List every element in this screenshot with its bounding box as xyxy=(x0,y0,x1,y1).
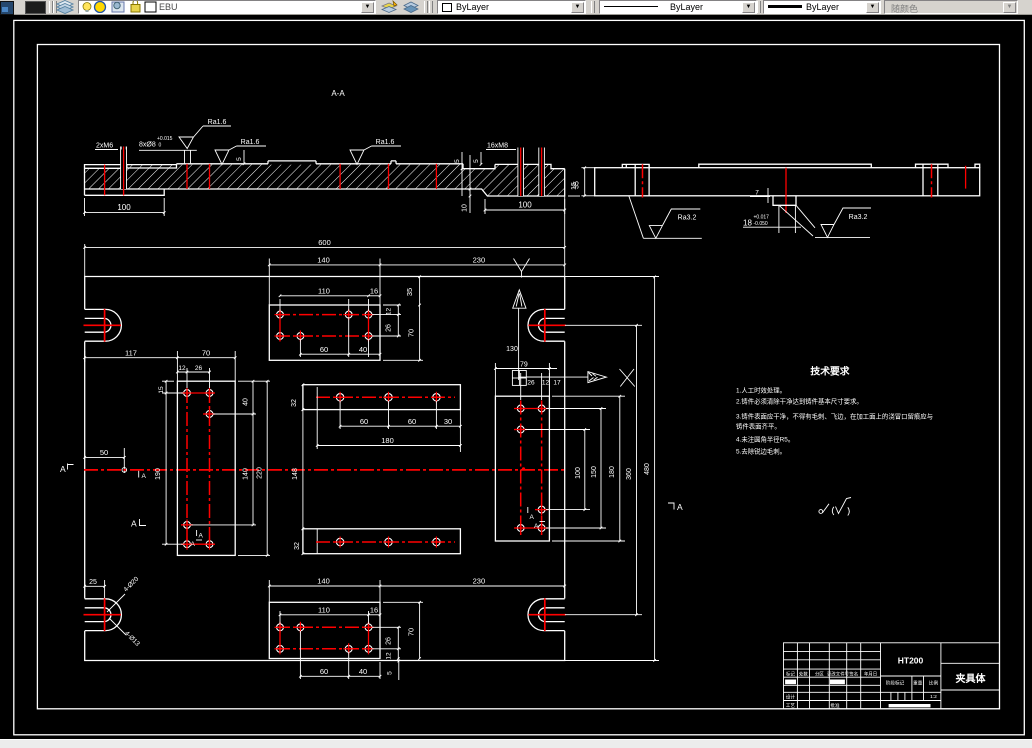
dimension 60 (upper strip holes right) xyxy=(389,401,438,429)
svg-text:32: 32 xyxy=(291,399,298,407)
svg-text:26: 26 xyxy=(195,365,203,372)
svg-text:4-Ø20: 4-Ø20 xyxy=(122,575,140,593)
svg-text:16: 16 xyxy=(370,606,378,615)
bottom pocket hole 2 xyxy=(295,622,306,633)
svg-text:50: 50 xyxy=(100,448,108,457)
right pocket hole 3 xyxy=(515,424,526,435)
svg-text:100: 100 xyxy=(518,201,532,210)
svg-text:批准: 批准 xyxy=(830,702,840,709)
bottom pocket hole 4 xyxy=(275,643,286,654)
title block frame and revision grid xyxy=(784,643,1000,709)
upper strip hole 2 xyxy=(383,392,394,403)
svg-text:70: 70 xyxy=(407,628,416,636)
dimension 110 (bottom pocket) xyxy=(279,606,370,625)
lower strip hole 2 xyxy=(383,537,394,548)
dimension 60 (upper strip holes left) xyxy=(339,401,390,429)
section A-A hole centerline 4 xyxy=(209,164,211,189)
dimension 70 (bottom pocket height) xyxy=(383,601,423,660)
svg-text:A: A xyxy=(534,523,539,530)
svg-text:26: 26 xyxy=(527,380,535,387)
svg-text:A: A xyxy=(60,464,66,474)
side view centerline 2 (red, boss) xyxy=(785,168,787,213)
dimension 10 (right foot step) xyxy=(462,155,472,213)
label 4-Φ20 with leader xyxy=(107,575,140,612)
dimension 35 (side view height) xyxy=(574,166,596,197)
svg-text:79: 79 xyxy=(520,361,528,368)
dimension 5 (left of 16xM8) xyxy=(454,152,463,196)
svg-text:220: 220 xyxy=(257,467,264,479)
svg-text:1:2: 1:2 xyxy=(930,694,937,700)
section mark A (left pocket bottom 2) xyxy=(191,540,203,548)
dimension 26 12 17 (right pocket columns) xyxy=(521,373,561,400)
layer combo xyxy=(78,0,376,14)
svg-text:工艺: 工艺 xyxy=(786,703,796,708)
svg-text:40: 40 xyxy=(359,345,367,354)
section A-A hole centerline 2 xyxy=(123,147,125,196)
svg-text:夹具体: 夹具体 xyxy=(956,672,987,685)
top pocket hole 5 xyxy=(295,331,306,342)
svg-text:5: 5 xyxy=(473,159,480,163)
dimension 180 (upper strip) xyxy=(316,387,462,449)
dimension 360 (U-slots) xyxy=(565,324,642,616)
left pocket hole 1 xyxy=(182,388,193,399)
lineweight combo xyxy=(763,0,881,14)
svg-text:0: 0 xyxy=(159,143,162,149)
right pocket hole 1 xyxy=(515,403,526,414)
svg-text:26: 26 xyxy=(386,637,393,645)
top pocket hole pattern centerlines (red) xyxy=(276,310,372,341)
dimension 79 (right pocket top) xyxy=(494,361,557,396)
dimension 5 (bottom pocket to edge) xyxy=(387,659,401,681)
section mark A (right) xyxy=(668,502,683,512)
svg-text:150: 150 xyxy=(591,466,598,478)
dimension 50 (locating point) xyxy=(83,448,126,473)
svg-text:40: 40 xyxy=(243,398,250,406)
dimension 15 (section right edge) xyxy=(568,182,580,196)
svg-text:10: 10 xyxy=(462,204,469,212)
top pocket hole 6 xyxy=(363,331,374,342)
svg-text:60: 60 xyxy=(408,417,416,426)
lower middle strip centerline (red) xyxy=(316,541,455,543)
bottom pocket hole pattern centerlines (red) xyxy=(276,622,372,653)
side view centerline 1 (red) xyxy=(642,164,644,197)
right pocket outline xyxy=(495,396,549,541)
svg-text:30: 30 xyxy=(444,417,452,426)
svg-text:7: 7 xyxy=(755,190,759,197)
dimension 70 (left pocket width) xyxy=(177,348,236,381)
dimension 26 (left pocket) xyxy=(195,365,211,373)
svg-text:8xØ8: 8xØ8 xyxy=(139,141,156,148)
roughness symbol Ra1.6 #3 xyxy=(350,139,401,165)
plot style combo (disabled) xyxy=(884,0,1018,14)
application toolbar xyxy=(0,0,1032,15)
left pocket hole 5 xyxy=(182,539,193,550)
svg-text:12: 12 xyxy=(178,365,186,372)
technical requirements line 2 xyxy=(736,397,863,406)
dimension 130 (arrow) xyxy=(506,290,526,380)
U-slot top-right with centerlines xyxy=(528,309,566,342)
section mark A (right pocket bottom 2) xyxy=(534,522,545,531)
section mark A (near point) xyxy=(139,471,147,480)
dimension 35 (top pocket offset) xyxy=(405,275,421,306)
dimension 600 (plan width) xyxy=(83,197,566,277)
dimension 100 (right pocket) xyxy=(525,428,590,511)
bottom pocket hole 5 xyxy=(343,643,354,654)
svg-text:26: 26 xyxy=(386,324,393,332)
dimension 150 (right pocket) xyxy=(546,407,606,529)
svg-text:230: 230 xyxy=(473,256,486,265)
technical requirements line 6 xyxy=(736,447,786,456)
svg-text:60: 60 xyxy=(360,417,368,426)
svg-text:HT200: HT200 xyxy=(898,656,924,666)
svg-text:阶段标记: 阶段标记 xyxy=(886,680,905,687)
label 2xM6 with leader xyxy=(95,143,126,150)
svg-text:5.去除锐边毛刺。: 5.去除锐边毛刺。 xyxy=(736,447,786,456)
svg-text:16xM8: 16xM8 xyxy=(487,143,508,150)
svg-text:60: 60 xyxy=(320,345,328,354)
svg-text:18: 18 xyxy=(743,219,752,228)
left pocket hole 6 xyxy=(204,539,215,550)
svg-text:230: 230 xyxy=(473,577,486,586)
title block part name 夹具体 xyxy=(956,672,987,685)
side view centerline 4 (red) xyxy=(965,166,967,189)
left pocket outline xyxy=(177,381,235,555)
title block scale bar xyxy=(889,704,931,707)
dimension 100 (section left foot) xyxy=(83,198,165,216)
dimension 117 (plan left) xyxy=(83,348,178,381)
dimension 18 +0.017/-0.050 (boss width) xyxy=(743,205,801,233)
side view raised plateau middle xyxy=(699,164,872,168)
lower strip hole 3 xyxy=(431,537,442,548)
dimension 12 (top pocket row offset) xyxy=(383,304,401,316)
section mark A (left edge) xyxy=(60,464,74,475)
svg-text:5: 5 xyxy=(387,671,394,675)
section A-A hole centerline 5 xyxy=(339,164,341,189)
dimension 140 (plan top) xyxy=(268,256,381,305)
svg-text:A: A xyxy=(142,473,147,480)
section A-A hole centerline 9 xyxy=(541,148,543,197)
side view edge line 1 xyxy=(634,164,636,195)
svg-text:140: 140 xyxy=(317,577,330,586)
right pocket hole 5 xyxy=(515,523,526,534)
section A-A hole centerline 3 xyxy=(186,164,188,189)
svg-text:15: 15 xyxy=(158,386,165,394)
svg-text:Ra1.6: Ra1.6 xyxy=(208,119,227,126)
two layer tool icons xyxy=(381,0,421,14)
bottom pocket hole 3 xyxy=(363,622,374,633)
svg-text:17: 17 xyxy=(553,380,561,387)
svg-text:技术要求: 技术要求 xyxy=(810,365,849,378)
dimension 32 (lower strip height) xyxy=(294,528,304,556)
dimension 12 (bottom pocket) xyxy=(372,649,401,660)
side view outline xyxy=(595,168,980,196)
dimension 16 (bottom pocket) xyxy=(369,606,382,617)
svg-text:处数: 处数 xyxy=(799,670,808,677)
upper strip hole 3 xyxy=(431,392,442,403)
dimension 5 (step near Ra1.6) xyxy=(236,150,245,165)
top pocket hole 3 xyxy=(363,309,374,320)
dimension 12 (left pocket) xyxy=(176,365,209,388)
svg-text:110: 110 xyxy=(318,606,330,615)
svg-text:A: A xyxy=(191,541,196,548)
U-slot top-left with centerlines xyxy=(84,309,122,342)
section A-A hole centerline 1 xyxy=(104,165,106,196)
dimension 480 (plan height) xyxy=(565,276,659,662)
svg-text:-0.050: -0.050 xyxy=(754,221,768,227)
top pocket outline xyxy=(269,305,380,360)
left pocket hole 4 xyxy=(182,519,193,530)
datum target symbol xyxy=(512,371,526,386)
right pocket centerlines (red) xyxy=(514,401,548,536)
title block highlighted cells xyxy=(785,680,845,685)
side view raised strip right 2 xyxy=(975,164,980,168)
svg-text:140: 140 xyxy=(317,256,330,265)
technical requirements line 3 xyxy=(736,412,933,421)
plan view outline xyxy=(85,277,565,661)
svg-text:4-Ø13: 4-Ø13 xyxy=(123,630,141,648)
svg-text:Ra3.2: Ra3.2 xyxy=(678,215,697,222)
section mark A (right pocket bottom 1) xyxy=(528,507,535,521)
svg-text:年月日: 年月日 xyxy=(864,670,877,677)
svg-text:A: A xyxy=(677,502,683,512)
left pocket centerlines (red) xyxy=(181,389,215,548)
svg-text:40: 40 xyxy=(359,667,367,676)
right pocket hole 2 xyxy=(536,403,547,414)
bottom pocket hole 1 xyxy=(275,622,286,633)
side view edge line 2 xyxy=(648,164,650,195)
linetype combo xyxy=(599,0,757,14)
left pocket hole 2 xyxy=(204,388,215,399)
upper strip hole 1 xyxy=(335,392,346,403)
title block material HT200 xyxy=(898,656,924,666)
svg-text:70: 70 xyxy=(407,329,416,337)
dimension 26 (top pocket rows) xyxy=(372,315,401,338)
dimension 40 (left pocket) xyxy=(213,380,256,415)
svg-text:32: 32 xyxy=(294,542,301,550)
svg-text:70: 70 xyxy=(202,348,210,357)
svg-text:1.人工时效处理。: 1.人工时效处理。 xyxy=(736,386,786,395)
label 16xM8 with leader xyxy=(486,143,516,150)
plan centerline node marker xyxy=(522,467,525,470)
label 4-Φ13 with leader xyxy=(109,618,141,648)
section mark A (left pocket bottom 1) xyxy=(197,530,204,540)
dimension 5 (right notch) xyxy=(473,152,482,166)
side view raised strip right 1 xyxy=(916,164,949,168)
side view edge line 3 xyxy=(922,164,924,195)
svg-text:A: A xyxy=(199,533,204,540)
svg-text:Ra1.6: Ra1.6 xyxy=(376,139,395,146)
dimension 180 (right pocket) xyxy=(552,395,625,542)
svg-text:5: 5 xyxy=(236,157,243,161)
section A-A outline xyxy=(85,161,565,196)
dimension 60 (bottom pocket) xyxy=(299,631,350,679)
dimension 40 (bottom pocket) xyxy=(349,662,382,679)
lower strip hole 1 xyxy=(335,537,346,548)
dimension 15 (left pocket top) xyxy=(158,380,183,544)
svg-text:Ra3.2: Ra3.2 xyxy=(849,214,868,221)
svg-text:5: 5 xyxy=(454,159,461,163)
dimension 7 (boss) xyxy=(750,188,770,203)
right pocket hole 4 xyxy=(536,504,547,515)
svg-text:35: 35 xyxy=(405,288,414,296)
right pocket hole 6 xyxy=(536,523,547,534)
dimension 16 (top pocket) xyxy=(369,287,382,298)
svg-text:600: 600 xyxy=(318,238,331,247)
svg-text:180: 180 xyxy=(381,436,394,445)
svg-text:110: 110 xyxy=(318,287,330,296)
section A-A tapped hole 16xM8 wall pair 1 xyxy=(518,148,524,197)
svg-text:25: 25 xyxy=(89,579,97,586)
title block stage row xyxy=(886,680,939,701)
svg-text:+0.017: +0.017 xyxy=(754,215,770,221)
svg-text:4.未注圆角半径R5。: 4.未注圆角半径R5。 xyxy=(736,435,794,444)
dimension 100 (section right foot) xyxy=(484,199,566,214)
svg-text:A-A: A-A xyxy=(331,89,345,98)
svg-text:12: 12 xyxy=(542,380,550,387)
svg-text:签名: 签名 xyxy=(849,670,858,677)
view label A-A xyxy=(331,89,345,98)
side view raised strip left xyxy=(622,164,649,167)
top pocket hole 1 xyxy=(275,309,286,320)
svg-text:12: 12 xyxy=(386,652,393,660)
technical requirements title xyxy=(810,365,849,378)
svg-text:360: 360 xyxy=(626,468,633,480)
left pocket hole 3 xyxy=(204,409,215,420)
dimension 140 (plan bottom) xyxy=(268,577,381,602)
svg-text:标记: 标记 xyxy=(786,670,795,677)
top pocket hole 4 xyxy=(275,331,286,342)
dimension 148 (between strips) xyxy=(292,385,304,553)
svg-text:148: 148 xyxy=(292,468,299,480)
svg-text:分区: 分区 xyxy=(815,670,824,677)
upper middle strip outline xyxy=(303,385,461,410)
section arrow X with label xyxy=(520,369,635,387)
dimension 32 (upper strip height) xyxy=(291,383,304,411)
svg-text:更改文件号: 更改文件号 xyxy=(827,670,850,677)
svg-text:12: 12 xyxy=(386,308,393,316)
svg-text:Ra1.6: Ra1.6 xyxy=(241,139,260,146)
dimension 110 (top pocket) xyxy=(279,287,401,315)
section A-A tapped hole 16xM8 wall pair 2 xyxy=(539,148,545,197)
plan main horizontal centerline (red) xyxy=(84,469,565,471)
section arrow Y with label xyxy=(514,259,530,278)
dimension 25 (bottom-left slot) xyxy=(83,579,106,598)
svg-text:3.铸件表面应干净，不得有毛刺、飞边，在加工面上的浇冒口留痕: 3.铸件表面应干净，不得有毛刺、飞边，在加工面上的浇冒口留痕应与 xyxy=(736,412,933,421)
dimension 70 (top pocket height) xyxy=(383,305,423,362)
roughness symbol Ra3.2 #1 with leader xyxy=(629,196,702,239)
dimension 60 (top pocket) xyxy=(299,317,350,357)
svg-text:铸件表面齐平。: 铸件表面齐平。 xyxy=(736,422,781,431)
svg-text:+0.015: +0.015 xyxy=(157,136,173,142)
label 8xΦ8 +0.015/0 with leader xyxy=(139,136,197,164)
roughness symbol Ra3.2 #2 with leader xyxy=(779,205,871,237)
svg-text:重量: 重量 xyxy=(913,680,923,687)
side view centerline 3 (red) xyxy=(931,164,933,197)
dimension 40 (top pocket) xyxy=(349,339,382,357)
bottom pocket outline xyxy=(269,602,380,658)
section A-A hole centerline 7 xyxy=(435,164,437,189)
svg-text:2xM6: 2xM6 xyxy=(96,143,113,150)
status bar sliver xyxy=(0,739,1032,748)
side view edge line 4 xyxy=(937,164,939,195)
bottom pocket hole 6 xyxy=(363,643,374,654)
dimension 230 (plan bottom) xyxy=(380,577,566,588)
dimension 220 (left pocket) xyxy=(238,380,270,557)
side view boss xyxy=(773,196,796,206)
svg-text:60: 60 xyxy=(320,667,328,676)
section A-A hole centerline 6 xyxy=(388,164,390,189)
svg-text:A: A xyxy=(131,519,137,529)
svg-text:100: 100 xyxy=(575,467,582,479)
dimension 30 (upper strip) xyxy=(436,410,461,452)
U-slot bottom-left with centerlines xyxy=(84,598,122,631)
section A-A hole centerline 8 xyxy=(520,148,522,197)
dimension 140 (left pocket) xyxy=(191,414,256,526)
title block header row texts xyxy=(786,670,877,677)
title block row labels xyxy=(786,694,840,709)
technical requirements line 4 xyxy=(736,422,781,431)
svg-text:140: 140 xyxy=(243,468,250,480)
svg-text:100: 100 xyxy=(117,203,131,212)
dimension 230 (plan top) xyxy=(380,256,566,267)
surface finish summary mark xyxy=(819,498,851,516)
color combo xyxy=(437,0,586,14)
roughness symbol Ra1.6 #2 xyxy=(215,139,266,165)
svg-text:480: 480 xyxy=(644,463,651,475)
dimension 190 (left pocket holes) xyxy=(155,468,183,545)
section mark A-L (left lower) xyxy=(131,519,146,529)
lower middle strip outline xyxy=(303,529,461,554)
svg-text:比例: 比例 xyxy=(929,680,939,687)
svg-text:A: A xyxy=(530,514,535,521)
dimension 26 (bottom pocket rows) xyxy=(372,626,401,650)
technical requirements line 1 xyxy=(736,386,786,395)
technical requirements line 5 xyxy=(736,435,794,444)
top pocket hole 2 xyxy=(343,309,354,320)
layers icon xyxy=(55,0,75,14)
svg-text:117: 117 xyxy=(125,348,137,357)
svg-text:130: 130 xyxy=(506,346,518,353)
svg-text:180: 180 xyxy=(609,466,616,478)
svg-text:设计: 设计 xyxy=(786,694,796,701)
title block middle dividers xyxy=(881,643,1001,709)
section A-A tapped hole 2xM6 walls xyxy=(121,147,127,190)
svg-text:2.铸件必须清除干净达到铸件基本尺寸要求。: 2.铸件必须清除干净达到铸件基本尺寸要求。 xyxy=(736,397,863,406)
upper middle strip centerline (red) xyxy=(316,396,455,398)
section A-A hatching xyxy=(85,163,565,196)
U-slot bottom-right with centerlines xyxy=(528,598,566,631)
svg-text:16: 16 xyxy=(370,287,378,296)
roughness symbol Ra1.6 #1 xyxy=(179,119,231,149)
svg-text:190: 190 xyxy=(155,468,162,480)
svg-text:35: 35 xyxy=(574,181,581,189)
